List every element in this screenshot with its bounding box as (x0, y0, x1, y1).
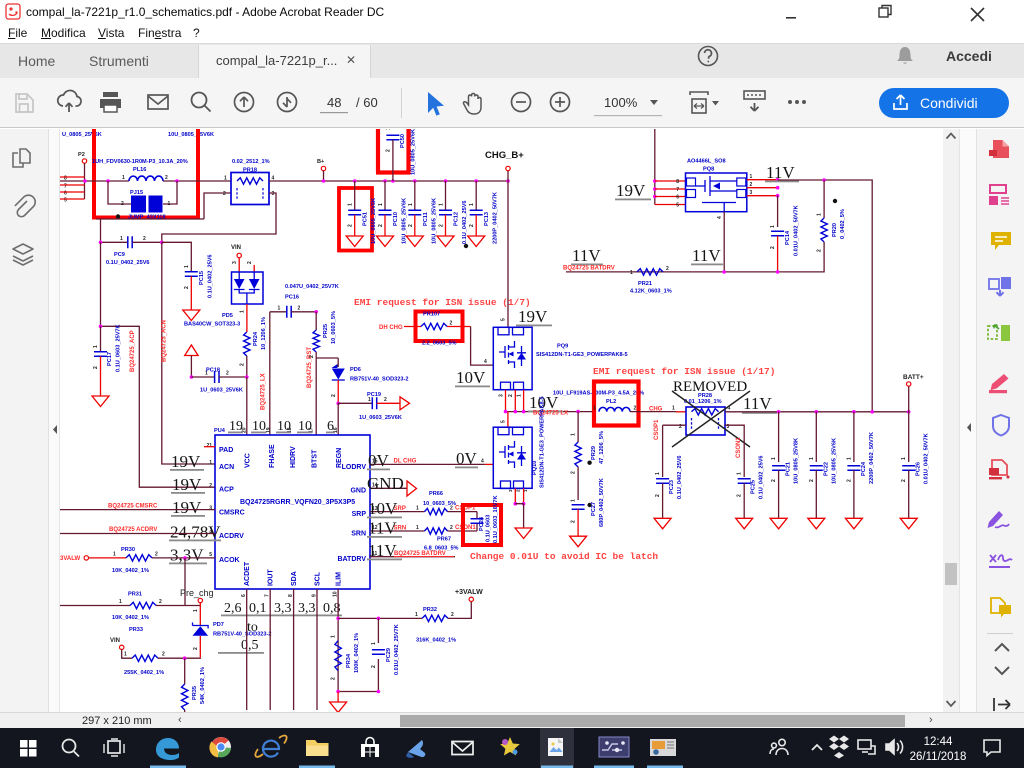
save (disabled) (16, 94, 33, 112)
start (20, 740, 37, 757)
store (361, 738, 379, 758)
panel divider (987, 633, 1013, 634)
wire: LX down to PQ10 drain (507, 412, 509, 428)
wire: 11V rail right and long drop to charge bus (778, 180, 873, 412)
capacitor PC10 (384, 181, 386, 210)
wire: ACDRV net (60, 533, 215, 535)
export pdf (red) (989, 140, 1009, 158)
resistor PR35 (184, 658, 186, 684)
resistor PR25 (313, 330, 319, 352)
wire: P2 pin stubs (60, 177, 85, 199)
right splitter arrow (967, 423, 971, 432)
resistor PR24 (244, 332, 250, 356)
ground below PR34 (338, 691, 378, 693)
fit width icon (690, 92, 708, 113)
chevron down (995, 667, 1009, 674)
stamp doc (red) (989, 460, 1010, 479)
resistor PR29 (snubber) (577, 412, 579, 442)
wire: PR28 pin3 to CSON1 cap (725, 425, 744, 477)
search (63, 740, 80, 757)
wire: SRN net with resistor PR67 (370, 530, 425, 532)
annotation red box around PC28 (463, 505, 501, 545)
wire: PC17/ACP branch (101, 242, 216, 487)
app underline indicators (150, 766, 683, 768)
notifications (984, 740, 1000, 756)
capacitor PC21 (778, 412, 780, 462)
wire: CMSRC net (60, 509, 215, 511)
ribbon display icon (744, 91, 765, 111)
combine files (violet) (989, 277, 1011, 296)
mail (452, 742, 473, 755)
capacitor PC27 (577, 467, 579, 500)
wire: bus from PR18 to CHG_B+ (269, 180, 508, 182)
capacitor PC13 (475, 181, 477, 210)
capacitor PC24 (853, 412, 855, 462)
select cursor (428, 92, 444, 116)
wire: bottom pin stubs (247, 589, 317, 710)
certify xl (purple) (989, 555, 1012, 568)
comment (yellow) (991, 232, 1011, 250)
bell (897, 47, 913, 64)
wire: DH_CHG to PQ9 gate (471, 327, 494, 366)
scanner app (406, 740, 425, 758)
wire: PD5 pin1 to PR24 (246, 304, 248, 332)
wire: PR18 pin2 return to PC9 (96, 193, 231, 242)
wire: main input bus (60, 180, 231, 182)
chrome (209, 737, 231, 758)
speaker (886, 740, 903, 754)
wire: LODRV / DL_CHG net to PQ10 gate (370, 463, 485, 465)
GND pin with net arrow (370, 487, 407, 489)
left sidebar: paperclip icon (15, 195, 35, 217)
wire: REGN net (336, 402, 340, 406)
wire: ILIM net (337, 589, 339, 692)
wire: 19V feed to PQ8 (654, 129, 656, 205)
capacitor PC29 (377, 618, 379, 691)
vscroll arrows (947, 134, 956, 139)
wire: PR18 pin3 to PC9 (162, 193, 276, 242)
photos star (500, 737, 520, 755)
circuit viewer app (599, 737, 629, 757)
mail (148, 95, 168, 109)
wire: PQ9 sources to LX bus (506, 390, 524, 412)
left sidebar: pages icon (13, 149, 30, 167)
wire: CHG_B+ down to PQ9 drain (507, 171, 509, 328)
cloud upload (58, 90, 81, 112)
wire: PQ10 sources to ground (515, 489, 523, 504)
wire: ACN net from PC9 to PU4 pin1 (162, 242, 215, 464)
zoom out (512, 93, 531, 112)
wire: PQ8 drain pins to 11V (747, 180, 778, 196)
zoom in (551, 93, 570, 112)
jump annotation dot (116, 214, 120, 218)
wire: PAD stub (204, 446, 215, 448)
wire: BATDRV net (370, 556, 455, 558)
capacitor PC14 (777, 196, 779, 227)
window close (971, 8, 984, 21)
fill&sign pencil (pink) (989, 374, 1009, 393)
page down (278, 93, 297, 112)
capacitor PC18 (190, 375, 194, 379)
pen signature (purple) (988, 511, 1010, 528)
annotation: removal cross (672, 391, 750, 447)
people (770, 739, 788, 755)
condividi button (879, 88, 1009, 118)
create pdf (pink) (990, 185, 1009, 204)
capacitor PC19 (338, 402, 372, 404)
mosfet PQ10 (493, 427, 532, 488)
annotation red box around PC51 (339, 188, 372, 251)
diode PD7 (199, 603, 201, 625)
annotation red box around PL2 (594, 382, 639, 426)
resistor PR20 (833, 199, 837, 203)
diode PD6 (BST to REGN) (316, 358, 338, 367)
annotation red box around PR107 (416, 312, 463, 342)
ellipsis (788, 100, 806, 104)
resistor PR33 (132, 655, 158, 661)
resistor PR31 (60, 605, 130, 607)
shield (violet outline) (993, 415, 1009, 436)
window minimize (786, 17, 796, 19)
wire: PQ8 source pin4 down (723, 212, 725, 272)
presentation app (650, 739, 676, 756)
capacitor PC17 (100, 326, 102, 352)
organize pages (green) (988, 325, 1010, 341)
search (192, 93, 211, 112)
help circle (699, 47, 718, 66)
wire: charge bus to BATT+ (725, 411, 909, 413)
sticky copy (yellow) (991, 598, 1011, 618)
divider (401, 88, 402, 118)
capacitor PC26 (908, 412, 910, 462)
capacitor PC9 (101, 241, 128, 243)
annotation black dot near PC12 (464, 244, 468, 248)
wire: PC9 junction to PC15 (162, 242, 192, 271)
capacitor PC51 (354, 181, 356, 210)
collapse arrow (994, 698, 1010, 711)
wire: PR28 pin2 to CSOP1 cap (663, 425, 686, 477)
annotation red box around PJ15 jumper (94, 129, 198, 218)
wire: LX net to PHASE pin (269, 312, 271, 435)
capacitor PC11 (414, 181, 416, 210)
annotation red box (top, cut off) with capacitor PC50 (376, 129, 411, 173)
wire: SRP net with resistor PR66 (370, 511, 425, 513)
printer (100, 92, 121, 112)
left sidebar: layers icon (13, 244, 33, 265)
window restore (879, 6, 891, 18)
photos app (active) (548, 738, 563, 756)
page up (235, 93, 254, 112)
hand tool (463, 94, 481, 115)
acrobat pdf icon (6, 4, 20, 19)
capacitor PC28 (sense filter) (476, 512, 478, 531)
capacitor PC22 (815, 412, 817, 462)
node BATT+ (908, 386, 910, 412)
dual diode PD5 (232, 272, 264, 304)
file explorer folder (306, 740, 329, 756)
edge (156, 738, 179, 760)
wire: VCC from PC18 junction to PU4 (246, 377, 248, 435)
svg-text:26/11/2018: 26/11/2018 (910, 751, 967, 763)
left splitter arrow (53, 425, 57, 434)
svg-text:12:44: 12:44 (924, 736, 953, 748)
wire: BST vertical (315, 312, 317, 330)
capacitor PC12 (445, 181, 447, 210)
net arrow above PC18 (185, 345, 198, 356)
active app highlight (540, 728, 574, 768)
dropbox (829, 736, 849, 759)
wire: LX bus (506, 411, 594, 413)
task view (104, 739, 124, 756)
internet explorer (255, 736, 286, 757)
chevron up tray (812, 745, 822, 750)
chevron up (995, 644, 1009, 651)
network (858, 740, 875, 754)
